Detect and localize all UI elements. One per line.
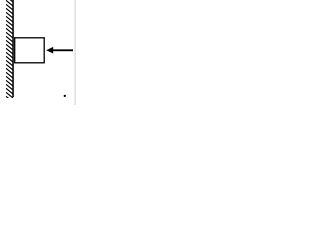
block (box) against wall [15,38,45,63]
force arrow shaft [53,49,73,51]
wall face line [12,0,14,97]
force arrow head (pointing left at box) [46,47,53,54]
wall hatching [6,0,13,102]
right page-edge rule [75,0,76,105]
background [0,0,76,105]
stray period dot [64,95,66,97]
